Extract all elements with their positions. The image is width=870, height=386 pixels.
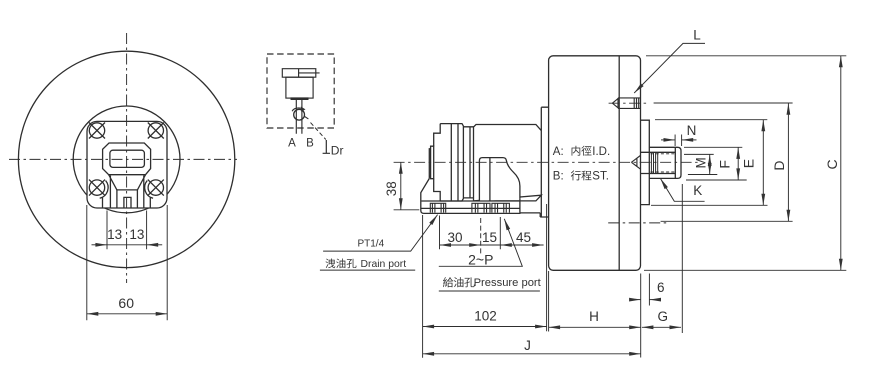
svg-text:L: L [693, 28, 701, 43]
detail swirl tail [304, 116, 309, 119]
front view middle circle [73, 106, 180, 213]
svg-text:I.D.: I.D. [592, 146, 610, 158]
svg-text:M: M [694, 157, 709, 168]
dimension 6 [641, 274, 650, 358]
dimension 60 extension lines [87, 205, 167, 320]
drain label underline [320, 269, 415, 271]
dimension N [675, 135, 682, 147]
lower port block inner [117, 190, 137, 208]
detail rotation arrow [292, 108, 303, 111]
plug centerline [609, 102, 648, 104]
bolt circle centerline lower [608, 222, 666, 224]
detail dashed enclosure box [267, 54, 334, 128]
svg-text:A:: A: [553, 146, 564, 158]
svg-text:2~P: 2~P [468, 252, 493, 268]
svg-text:30: 30 [447, 230, 462, 245]
dimension 60 line [87, 313, 167, 315]
joint ring 3 [434, 124, 441, 201]
front view outer circle [18, 51, 234, 267]
pressure label underline [439, 290, 540, 292]
dimension 30 15 45 extension lines [440, 204, 547, 331]
front view vertical centerline [126, 33, 128, 283]
dimension C line [840, 56, 842, 270]
svg-text:15: 15 [482, 230, 497, 245]
svg-text:C: C [824, 159, 840, 169]
pressure port cap B [492, 203, 510, 212]
svg-text:D: D [771, 160, 787, 170]
dimension 15 line [481, 244, 501, 246]
CJK pressure oil hole [443, 277, 453, 287]
detail T bar [291, 97, 309, 100]
drain port cap [430, 203, 445, 212]
rear flange plate [641, 120, 650, 204]
dimension E line [762, 120, 764, 205]
svg-text:J: J [524, 338, 531, 353]
bolt hole 3 with cross [89, 180, 105, 196]
dimension D extension lines [654, 103, 793, 221]
port slot [124, 197, 131, 208]
front port boss [479, 158, 520, 201]
boss inner rounded rectangle [110, 150, 144, 167]
dimension 38 [394, 209, 420, 211]
body internal boundary [618, 56, 620, 270]
svg-text:38: 38 [384, 181, 399, 196]
CJK xing cheng (stroke) [571, 170, 581, 180]
adapter plate [541, 107, 548, 217]
detail cylinder top rectangle [282, 69, 319, 78]
joint drum 1 [440, 124, 463, 201]
svg-text:H: H [589, 309, 599, 324]
dimension H line [548, 271, 550, 332]
dimension 13 13 extension lines [107, 211, 147, 250]
2~P leader to port [439, 219, 523, 266]
stud thread dashed [651, 154, 676, 172]
joint foot [421, 179, 521, 214]
joint drum 2 (large) [474, 125, 542, 201]
dimension 30 line [440, 244, 481, 246]
dimension J line [423, 353, 641, 355]
svg-text:G: G [658, 309, 669, 324]
svg-text:K: K [693, 183, 702, 198]
detail cylinder body rectangle [286, 77, 313, 98]
svg-text:E: E [741, 159, 757, 168]
pressure port cap A [472, 203, 490, 212]
bolt hole 2 with cross [148, 123, 164, 139]
ear arc right around lower-right bolt hole [145, 181, 153, 208]
dimension M extension lines [684, 154, 717, 174]
L leader [634, 43, 705, 93]
dimension 13 13 line with outside arrows [107, 244, 147, 246]
drain ground symbol [323, 140, 330, 153]
detail pipe [296, 99, 302, 134]
detail drain dashed leader [311, 123, 326, 140]
ear arc left around lower-left bolt hole [100, 181, 108, 208]
svg-text:102: 102 [474, 308, 497, 323]
cylinder body [549, 56, 641, 270]
svg-text:F: F [717, 160, 733, 169]
CJK nei jing (inner diameter) [572, 146, 581, 156]
svg-text:Dr: Dr [331, 143, 344, 157]
PT1/4 drain leader [323, 215, 438, 252]
front view horizontal centerline [9, 158, 237, 160]
svg-text:B: B [306, 138, 314, 150]
front view square mounting flange [87, 121, 167, 208]
joint step section [463, 127, 473, 198]
main axis centerline [394, 161, 698, 163]
dimension C extension lines [644, 56, 846, 270]
center boss octagon [103, 143, 151, 175]
detail rotary joint circle [294, 109, 305, 120]
svg-text:N: N [687, 123, 697, 138]
CJK drain oil hole [325, 258, 335, 268]
stud thread hatch [651, 152, 657, 173]
dimension E extension lines [651, 120, 768, 206]
svg-text:60: 60 [118, 295, 134, 311]
svg-text:13: 13 [129, 227, 144, 242]
port centerline dashed extension [480, 218, 482, 255]
dimension F extension lines [684, 147, 747, 180]
dimension F line [737, 147, 739, 180]
dimension D line [787, 103, 789, 221]
lower port block taper [109, 175, 146, 208]
svg-text:45: 45 [516, 230, 531, 245]
stud inner cylinder [641, 147, 676, 178]
rod cone tip [631, 156, 640, 170]
dimension 102 extension and line [422, 215, 424, 358]
base manifold lines [421, 199, 549, 217]
dimension 45 line [500, 244, 543, 246]
joint left cap ring 1 [429, 149, 430, 179]
joint ring 2 [431, 146, 434, 179]
svg-text:ST.: ST. [592, 171, 609, 183]
svg-text:A: A [288, 138, 296, 150]
svg-text:13: 13 [107, 227, 122, 242]
plug L [612, 98, 640, 109]
svg-text:Pressure port: Pressure port [474, 277, 542, 289]
svg-text:PT1/4: PT1/4 [357, 239, 384, 250]
svg-text:6: 6 [657, 280, 665, 295]
dimension M line [709, 155, 711, 175]
threaded stud outer [649, 147, 681, 178]
bolt hole 1 with cross [89, 123, 105, 139]
svg-text:B:: B: [553, 171, 564, 183]
K leader [660, 178, 704, 201]
svg-text:Drain port: Drain port [361, 259, 407, 270]
bolt hole 4 with cross [148, 180, 164, 196]
dimension G line [681, 184, 683, 333]
